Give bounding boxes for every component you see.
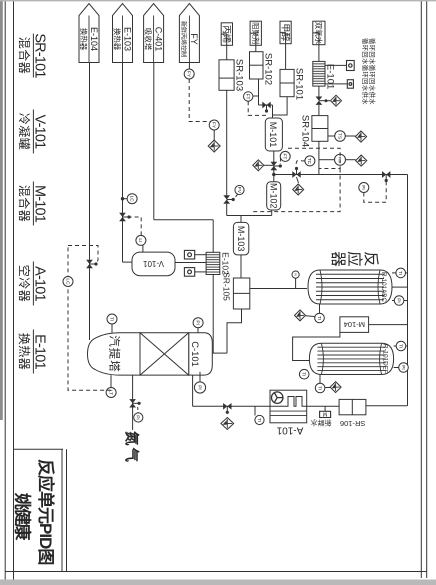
- pipe riser overhead to C-401 line: [154, 219, 213, 221]
- svg-text:M-103: M-103: [236, 226, 246, 252]
- wire SR-104 to TS: [328, 135, 335, 137]
- column C-101 stripping tower: [189, 333, 213, 375]
- interlock diamond right of riser valve: [293, 184, 304, 195]
- bottoms line to E-104: [89, 63, 91, 341]
- signal FT to valve: [279, 159, 281, 165]
- pipe E-101 to valve: [318, 86, 320, 96]
- wire pipe to PIS: [319, 159, 335, 161]
- pipe SR-101 outlet to M-101 inlet: [273, 97, 288, 115]
- pipe reactor top header: [407, 175, 409, 406]
- divider SR-102: [250, 64, 264, 66]
- svg-text:FY: FY: [189, 33, 199, 45]
- pipe SR-105 to reactor R-101ABC bottom: [250, 288, 307, 290]
- signal TC to valve: [296, 161, 305, 165]
- instrument TI on R-101DEF top: [396, 341, 406, 351]
- pipe 双氧水 to E-101: [318, 33, 320, 62]
- pipe M-104 bottom to R-101DEF bottom: [293, 332, 340, 360]
- wire 丙烯 box to pipe: [221, 33, 227, 35]
- pipe header to SR-106: [366, 405, 408, 407]
- wire CW box2 to E-101: [325, 83, 347, 85]
- svg-text:新鲜水: 新鲜水: [311, 418, 332, 427]
- svg-text:SR-102: SR-102: [263, 53, 274, 85]
- svg-text:E-101: E-101: [324, 64, 335, 89]
- wire to TI bottom: [111, 324, 113, 333]
- interlock diamond right of R-101ABC: [295, 310, 306, 321]
- utility box CW return: [347, 61, 355, 71]
- pipe V-101 bottom outlet: [123, 261, 133, 263]
- svg-text:氮气: 氮气: [123, 431, 141, 464]
- pipe elbow into M-103: [227, 216, 241, 223]
- scan edge shading right: [0, 580, 436, 585]
- signal PI to valve: [364, 180, 386, 203]
- instrument PI on C-101 upper left: [193, 318, 203, 328]
- stream label box 丙烯: [221, 23, 232, 46]
- wire C-101 to LT: [110, 375, 112, 388]
- stream label box 阻聚剂: [250, 21, 261, 45]
- pipe SR-106 to A-101: [307, 405, 339, 407]
- pipe into M-101: [272, 105, 274, 118]
- scan edge shading bottom: [0, 0, 3, 420]
- column C-101 packing X: [140, 333, 189, 375]
- svg-text:SR-106: SR-106: [340, 419, 365, 428]
- svg-text:SR-104: SR-104: [300, 115, 311, 147]
- wire pipe to FT: [253, 95, 259, 97]
- wire E-102 to CW box2: [195, 271, 206, 273]
- control valve between M-101 M-102: [270, 162, 277, 170]
- instrument LT on C-101 right: [106, 388, 116, 398]
- svg-text:换热器: 换热器: [79, 28, 89, 51]
- interlock diamond right of valve: [221, 418, 234, 430]
- pipe overhead to C-401 flag: [153, 63, 155, 220]
- control valve FV on riser top: [382, 171, 390, 178]
- air cooler A-101 coil: [270, 397, 307, 407]
- interlock diamond above TS: [355, 131, 366, 142]
- svg-text:E-104: E-104: [89, 27, 99, 51]
- svg-text:R-101ABC: R-101ABC: [380, 272, 387, 303]
- utility box E-102 CW 1: [184, 250, 194, 259]
- pipe overhead line through E-102 to C-101 top: [212, 220, 214, 353]
- pipe M-103 to SR-105: [240, 255, 242, 278]
- instrument FV propylene: [235, 185, 244, 194]
- condenser drum V-101: [132, 252, 175, 276]
- svg-text:E-103: E-103: [122, 27, 132, 51]
- level control loop dashed: [68, 246, 111, 391]
- vessel SR-104: [312, 116, 328, 142]
- wire valve to diamond: [319, 100, 330, 102]
- pipe M-101 to M-102: [273, 151, 275, 182]
- instrument PI on reactor feed: [292, 271, 299, 278]
- wire header to PI R2: [394, 367, 408, 369]
- vessel SR-106: [339, 399, 366, 414]
- wire to TI: [254, 406, 256, 415]
- instrument FT above M-101 outlet: [280, 151, 290, 161]
- svg-text:汽提塔: 汽提塔: [108, 335, 122, 373]
- svg-text:M: M: [322, 410, 327, 416]
- signal FT to valve: [248, 101, 268, 115]
- off-page flag E-104 换热器: [79, 4, 99, 63]
- equipment list item A-101 rule: [32, 262, 34, 306]
- svg-text:换热器: 换热器: [113, 28, 123, 51]
- wire R1 to TI right: [319, 304, 321, 313]
- instrument box M fresh water: [320, 411, 331, 417]
- interlock diamond above PIS: [356, 155, 367, 166]
- wire LC to pipe: [123, 198, 128, 200]
- off-page flag E-103 换热器: [113, 4, 133, 63]
- pipe tee into M-103: [240, 216, 242, 223]
- air cooler A-101 fan: [271, 392, 283, 404]
- svg-text:M-104: M-104: [344, 320, 365, 329]
- vessel SR-103: [219, 60, 234, 91]
- pipe header to M-104: [369, 324, 408, 326]
- heat exchanger E-102: [206, 252, 220, 274]
- svg-text:混合器: 混合器: [17, 185, 32, 223]
- wire TS to diamond: [345, 135, 355, 137]
- instrument TI on C-101 lower left: [107, 314, 117, 324]
- instrument PI on R-101ABC top: [394, 296, 404, 306]
- valve on H2O2 line: [316, 97, 323, 105]
- equipment list item V-101 rule: [32, 110, 34, 154]
- pipe riser SR-102 to M-101 inlet: [259, 104, 273, 106]
- instrument FY2: [209, 120, 219, 130]
- svg-text:换热器: 换热器: [17, 333, 31, 371]
- wire header to TI R2: [394, 345, 408, 347]
- control valve on E-104 bottoms line: [86, 260, 93, 268]
- instrument TI on R-101ABC top: [396, 268, 406, 278]
- instrument PI on R-101DEF top: [399, 363, 409, 373]
- svg-text:反应单元PID图: 反应单元PID图: [36, 459, 56, 564]
- pipe M-102 outlet stub: [271, 210, 273, 216]
- page border bottom inner line: [13, 0, 15, 585]
- pipe E-102 to V-101 drum: [175, 262, 206, 264]
- nitrogen line: [132, 375, 134, 430]
- reactor R-101ABC: [308, 270, 392, 304]
- divider SR-101: [280, 82, 294, 84]
- stream label box 甲醇: [280, 21, 291, 44]
- wire TI to diamond: [306, 315, 315, 318]
- divider SR-104: [312, 128, 328, 130]
- pipe propylene to M-103 riser: [226, 204, 228, 216]
- instrument TS on SR-104: [335, 131, 346, 142]
- pipe A-101 to C-101 top: [193, 405, 270, 407]
- wire TI to diamond: [325, 387, 331, 389]
- svg-text:C-401: C-401: [153, 27, 163, 52]
- svg-text:空冷器: 空冷器: [17, 265, 31, 303]
- signal FV to valve: [233, 195, 237, 200]
- svg-text:A-101: A-101: [276, 425, 303, 436]
- svg-text:冷凝罐: 冷凝罐: [17, 113, 32, 151]
- signal dashed run to M-102 area: [252, 169, 340, 212]
- pipe SR-103 outlet: [226, 90, 228, 196]
- instrument LC near valve: [127, 194, 137, 204]
- svg-text:SR-103: SR-103: [234, 59, 245, 91]
- instrument FT on SR-102 line: [244, 92, 253, 101]
- control valve on E-103 line: [119, 213, 126, 221]
- mixer M-102: [267, 182, 281, 210]
- svg-text:反: 反: [362, 251, 380, 267]
- svg-text:应: 应: [346, 251, 365, 267]
- vessel SR-102: [250, 52, 264, 79]
- interlock diamond right of FY2: [208, 140, 220, 152]
- pipe 阻聚剂 to SR-102: [255, 33, 257, 52]
- utility box E-102 CW 2: [184, 268, 194, 277]
- instrument PI right of C-101 head: [194, 382, 205, 393]
- svg-text:M-102: M-102: [269, 183, 279, 209]
- stream label box 双氧水: [313, 21, 325, 45]
- instrument PI near riser: [359, 183, 369, 193]
- wire to PI top: [197, 328, 199, 333]
- svg-text:SR-105: SR-105: [222, 272, 232, 301]
- pipe SR-105 to C-101 top: [227, 309, 242, 353]
- instrument TI below R-101DEF: [299, 369, 309, 379]
- control valve on C-101 overhead return: [223, 403, 231, 410]
- wire CW box1 to E-101: [325, 64, 347, 66]
- interlock diamond above H2O2 valve: [331, 95, 342, 106]
- signal dashed U at SR-104 outlet: [288, 148, 340, 168]
- column C-101 bottom head shape: [115, 333, 117, 375]
- wire FY2 to diamond: [213, 130, 215, 140]
- page border top outer line: [426, 0, 428, 578]
- equipment list item SR-101 rule: [32, 34, 34, 78]
- page border bottom outer line: [4, 0, 6, 585]
- instrument TI below A-101: [255, 415, 264, 424]
- wire 双氧水 box to pipe: [313, 32, 319, 34]
- svg-text:PI: PI: [294, 273, 298, 276]
- pipe 丙烯 to SR-103: [226, 34, 228, 60]
- A-101 internal line 1: [270, 410, 307, 412]
- pipe SR-104 outlet to riser: [318, 141, 320, 174]
- pipe V-101 bottoms to E-103 flag: [122, 63, 124, 263]
- interlock diamond below M-101 outlet: [253, 160, 264, 171]
- svg-text:R-101DEF: R-101DEF: [382, 344, 389, 374]
- pipe riser feed to reactor header: [274, 174, 408, 176]
- title block box: [66, 449, 68, 571]
- instrument TC near riser valve: [305, 156, 315, 166]
- svg-text:M-101: M-101: [268, 122, 278, 148]
- wire header to TI R1: [392, 272, 408, 274]
- wire to M box: [324, 406, 326, 411]
- svg-text:混合器: 混合器: [17, 37, 32, 75]
- instrument TI right of R-101ABC: [315, 313, 325, 323]
- instrument FY1: [184, 69, 194, 79]
- wire 阻聚剂 box to pipe: [250, 32, 256, 34]
- signal LI to valve: [130, 217, 141, 235]
- wire R2 to TI right: [319, 375, 321, 384]
- divider SR-106: [351, 399, 353, 414]
- pipe 甲醇 to SR-101: [285, 32, 287, 69]
- instrument TI right of R-101DEF: [315, 383, 325, 393]
- wire pipe to diamond: [264, 164, 274, 166]
- divider SR-105: [233, 292, 249, 294]
- pipe into C-101 top head side: [192, 375, 194, 406]
- vessel SR-101: [280, 69, 294, 96]
- off-page flag FY 新鲜丙烯控制: [179, 4, 199, 63]
- pipe SR-102 outlet: [258, 79, 260, 105]
- wire C-101 head to PI right: [199, 372, 201, 382]
- svg-text:吸收塔: 吸收塔: [144, 28, 154, 51]
- wire header to PI R1: [392, 300, 408, 302]
- wire PIS to diamond: [346, 159, 356, 161]
- wire valve to diamond: [297, 177, 299, 183]
- pipe C-101 top nozzle: [212, 352, 227, 354]
- off-page flag C-401 吸收塔: [144, 4, 164, 63]
- equipment list item M-101 rule: [32, 182, 34, 226]
- wire V-101 to LT: [142, 245, 144, 252]
- reactor R-101DEF: [309, 343, 393, 374]
- interlock diamond right of R-101DEF: [330, 382, 341, 393]
- control valve TV on riser bottom: [292, 171, 300, 178]
- signal dashed to E-104 valve: [68, 246, 98, 265]
- mixer M-104: [340, 317, 369, 333]
- signal FY1 to FY2: [189, 79, 214, 122]
- page border right line: [5, 571, 427, 573]
- signal to N2 valve: [137, 407, 139, 413]
- wire PI to pipe: [295, 278, 297, 288]
- instrument on N2 line: [134, 413, 143, 422]
- wire 甲醇 box to pipe: [280, 31, 286, 33]
- control valve on propylene line: [223, 195, 230, 203]
- svg-text:器: 器: [329, 251, 346, 267]
- instrument LI on V-101: [136, 235, 146, 245]
- junction dot riser/mixer line: [272, 173, 275, 176]
- svg-text:姚健康: 姚健康: [13, 492, 33, 541]
- svg-text:V-101: V-101: [142, 259, 163, 268]
- instrument PIS on H2O2 line: [335, 154, 346, 165]
- pipe valve to SR-104: [318, 105, 320, 116]
- A-101 internal line 2: [270, 415, 307, 417]
- control valve on SR-102 riser: [262, 102, 270, 109]
- instrument LC on dashed loop: [63, 277, 73, 287]
- vessel SR-105: [233, 278, 249, 309]
- mixer M-101: [265, 118, 282, 151]
- pipe riser M-102 to M-103 tee: [227, 215, 272, 217]
- page border top inner line: [420, 0, 422, 578]
- valve on nitrogen line: [129, 399, 136, 407]
- svg-text:C-101: C-101: [190, 341, 201, 367]
- svg-text:SR-101: SR-101: [294, 68, 305, 100]
- air cooler A-101: [270, 390, 307, 423]
- heat exchanger E-101: [313, 61, 325, 86]
- scan edge shading left faint: [0, 0, 436, 1]
- svg-text:E-102: E-102: [221, 252, 231, 275]
- mixer M-103: [233, 222, 248, 255]
- utility box CW supply: [347, 80, 353, 89]
- wire flag FY to FY1: [188, 63, 190, 70]
- equipment list item E-101 rule: [32, 330, 34, 374]
- wire E-102 to CW box1: [195, 254, 206, 256]
- divider SR-103: [219, 77, 234, 79]
- pipe header drop into R-101ABC: [392, 286, 408, 288]
